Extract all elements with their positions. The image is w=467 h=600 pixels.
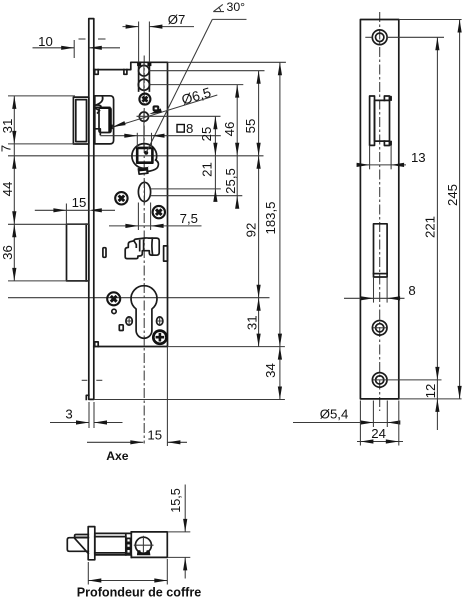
- follower circle: [132, 144, 157, 169]
- svg-text:21: 21: [200, 162, 215, 177]
- svg-text:3: 3: [65, 407, 72, 422]
- svg-text:245: 245: [445, 184, 460, 206]
- screw left (cross screw): [115, 192, 127, 204]
- lever inner right edge: [151, 238, 154, 255]
- latch channel dark tab left: [137, 62, 141, 66]
- svg-text:Axe: Axe: [106, 449, 129, 463]
- follower square hole: [137, 148, 152, 163]
- svg-text:34: 34: [263, 363, 278, 378]
- svg-text:Ø5,4: Ø5,4: [320, 407, 349, 422]
- svg-text:Profondeur de coffre: Profondeur de coffre: [77, 586, 202, 600]
- dim 44 left: [0, 182, 15, 197]
- svg-text:55: 55: [243, 119, 258, 134]
- case bottom notch near faceplate: [95, 342, 99, 347]
- svg-text:36: 36: [0, 245, 15, 260]
- faceplate (side view): [89, 19, 94, 400]
- svg-text:8: 8: [408, 283, 415, 298]
- side slot left: [103, 248, 106, 258]
- latch channel dark tab right: [147, 62, 151, 66]
- right dim line x=279.9 (183,5 / 34): [279, 62, 281, 399]
- svg-text:31: 31: [244, 315, 259, 330]
- mid screw hole: [372, 321, 387, 336]
- latch head (protruding): [73, 97, 88, 144]
- top screw hole: [372, 30, 387, 45]
- faceplate cross-section: [88, 527, 95, 560]
- bottom screw hole: [372, 373, 387, 388]
- 30 deg note underline: [212, 18, 246, 20]
- svg-text:7,5: 7,5: [180, 211, 198, 226]
- case box side view: [95, 532, 168, 558]
- latch pin bar (6.5 pin): [108, 108, 111, 132]
- tiny rect: [119, 325, 123, 331]
- latch cutout: [370, 96, 375, 145]
- extension line 25,5 ref: [151, 195, 243, 197]
- hole 6.5: [139, 112, 148, 121]
- dim O6,5 leader: [180, 85, 213, 108]
- tiny circle: [112, 309, 116, 313]
- extension line hole 6.5 axis: [137, 115, 221, 117]
- extension line latch bottom: [8, 143, 75, 145]
- latch recess: [99, 108, 111, 133]
- side slot right on case edge: [164, 246, 168, 261]
- extension line plate bottom: [399, 398, 462, 400]
- svg-text:44: 44: [0, 182, 15, 197]
- svg-text:25: 25: [199, 127, 214, 142]
- extension line bottom screw axis: [373, 379, 442, 381]
- deadbolt (thrown): [67, 224, 89, 281]
- box inner wall lines: [95, 536, 126, 538]
- lock case outline: [94, 62, 168, 346]
- phillips screw head: [153, 331, 166, 344]
- screw boss upper (cross screw): [139, 94, 150, 105]
- dim 7 left: [0, 145, 14, 152]
- oval slot below follower: [138, 182, 150, 201]
- deadbolt inner line: [85, 224, 87, 281]
- cylinder fixing oval right: [157, 317, 163, 325]
- follower axis line: [8, 155, 264, 157]
- latch head inner bevel: [76, 100, 87, 142]
- top screw axis dashes: [79, 38, 86, 40]
- small square dot: [154, 106, 159, 110]
- dim line x=437.4 (221 / 12): [436, 37, 438, 430]
- svg-text:92: 92: [244, 223, 259, 238]
- follower center dot: [144, 151, 148, 155]
- faceplate plate: [360, 20, 398, 399]
- hole 6.5 crosshair: [143, 111, 145, 148]
- case top notch near faceplate: [95, 70, 99, 75]
- svg-text:183,5: 183,5: [263, 201, 278, 234]
- left dimension chain line: [13, 96, 15, 281]
- dim square 8: [177, 125, 184, 133]
- svg-text:15: 15: [147, 428, 162, 443]
- circle crosshair vertical: [143, 63, 145, 92]
- faceplate bottom tab: [86, 395, 89, 399]
- right dim line x=258.6 (55 / 92 / 31): [258, 71, 260, 347]
- latch bevel diagonal: [74, 538, 88, 554]
- right dim line x=215 (25 / 21): [214, 116, 216, 196]
- svg-text:8: 8: [186, 121, 193, 136]
- extension line deadbolt bottom: [8, 280, 89, 282]
- latch pin nub: [111, 125, 113, 130]
- follower bottom tab: [138, 168, 148, 174]
- cylinder axis line: [8, 297, 270, 299]
- svg-text:7: 7: [0, 145, 14, 152]
- dim 36 left: [0, 245, 15, 260]
- 30 deg leader line: [146, 19, 212, 152]
- extension line latch top: [8, 95, 75, 97]
- screw right (cross screw): [153, 206, 165, 218]
- cylinder fixing oval left: [126, 317, 132, 325]
- svg-text:Ø7: Ø7: [168, 12, 186, 27]
- cylinder base feet: [137, 550, 151, 555]
- svg-text:30°: 30°: [226, 0, 245, 14]
- deadbolt cutout: [374, 224, 388, 277]
- latch bolt top plate (side): [75, 535, 89, 538]
- extension line top screw axis: [387, 36, 444, 38]
- dim Profondeur de coffre: [87, 562, 89, 585]
- svg-text:221: 221: [423, 216, 438, 238]
- svg-text:25,5: 25,5: [223, 168, 238, 194]
- dim 31 left: [0, 119, 15, 134]
- svg-text:15: 15: [72, 195, 87, 210]
- dim line x=459.6 (245): [459, 20, 461, 399]
- lever inner slot: [140, 240, 144, 251]
- follower cam lobe: [148, 159, 159, 171]
- svg-text:24: 24: [371, 426, 386, 441]
- latch bottom step: [95, 129, 100, 135]
- screw lower-left (cross screw): [107, 292, 120, 305]
- latch guide channel: [138, 64, 140, 91]
- cylinder end view: [135, 537, 151, 553]
- center line vertical (lock axis): [143, 56, 145, 444]
- extension line faceplate bottom: [94, 399, 285, 401]
- extension line case top: [168, 61, 286, 63]
- right dim line x=237 (46 / 25,5): [236, 85, 238, 204]
- extension line oval slot axis: [150, 188, 220, 190]
- extension line lower circle axis: [149, 84, 243, 86]
- faceplate center line: [379, 12, 381, 411]
- bottom screw axis dashes: [82, 379, 88, 381]
- stop lever mechanism: [125, 238, 159, 259]
- extension line case bottom: [168, 346, 285, 348]
- svg-text:15,5: 15,5: [169, 488, 183, 513]
- case top notch mid: [124, 70, 127, 75]
- svg-text:12: 12: [423, 384, 438, 399]
- latch spring hook: [95, 96, 103, 113]
- extension line deadbolt top: [8, 223, 89, 225]
- latch bolt body (side): [67, 538, 88, 552]
- dim 15,5 (case height): [169, 488, 183, 513]
- svg-text:10: 10: [38, 34, 53, 49]
- euro cylinder profile: [131, 286, 157, 339]
- angle 30 deg note: [213, 4, 224, 11]
- adjuster circle lower: [138, 79, 149, 90]
- extension line upper circle axis: [149, 70, 264, 72]
- latch body in case: [95, 96, 114, 144]
- extension line plate top: [399, 19, 462, 21]
- divider column: [125, 533, 127, 555]
- svg-text:13: 13: [411, 150, 426, 165]
- follower tab dark band: [139, 168, 147, 171]
- svg-text:46: 46: [222, 122, 237, 137]
- adjuster circle upper (Q7): [139, 65, 150, 76]
- lever top inner diagonal: [134, 241, 136, 247]
